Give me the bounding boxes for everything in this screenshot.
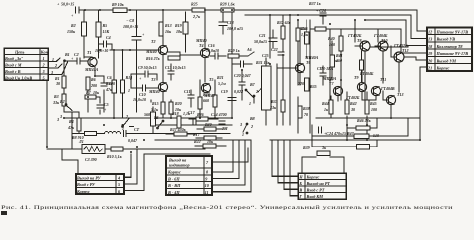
svg-text:С14 4700: С14 4700 — [211, 112, 227, 117]
svg-text:R4: R4 — [69, 119, 74, 124]
svg-text:18к: 18к — [176, 29, 183, 34]
wire: R14 leads — [122, 50, 124, 118]
svg-text:100: 100 — [371, 107, 377, 112]
resistor R14 — [120, 80, 124, 93]
capacitor C17 — [193, 118, 196, 124]
wire: C4 branch — [111, 44, 113, 50]
svg-text:100,0 я15: 100,0 я15 — [227, 26, 243, 31]
wire: R43 to right — [369, 118, 408, 136]
resistor R5 — [96, 22, 101, 37]
wire: X3 row7 feed — [212, 148, 248, 162]
resistor R1 — [62, 76, 66, 88]
svg-text:510: 510 — [373, 133, 379, 138]
wire: vertical x163 T2 collector — [162, 10, 164, 45]
svg-text:Т1: Т1 — [87, 50, 91, 55]
svg-text:С9 50,0х15: С9 50,0х15 — [138, 65, 157, 70]
svg-text:R27 430к: R27 430к — [170, 127, 187, 132]
resistor R15 — [161, 102, 165, 114]
svg-text:Н: Н — [298, 174, 303, 179]
svg-text:2,7к: 2,7к — [192, 14, 201, 19]
wire: R2 bottom to T1 collector — [83, 36, 85, 58]
svg-text:Вход „Зв": Вход „Зв" — [4, 56, 24, 61]
resistor R4 — [77, 118, 81, 134]
transistor T11 — [371, 86, 380, 95]
svg-text:+ С26: + С26 — [316, 8, 326, 13]
svg-text:10,0×10: 10,0×10 — [95, 48, 108, 53]
wire: R44 leads — [330, 96, 332, 118]
svg-text:В1: В1 — [64, 52, 70, 57]
svg-text:R30: R30 — [205, 122, 212, 127]
svg-text:47к: 47к — [67, 125, 75, 130]
wire: output УМ run to connector row 20 — [404, 57, 427, 60]
svg-text:В2: В2 — [59, 99, 65, 104]
svg-text:R3: R3 — [54, 94, 59, 99]
wire: feedback bus y118 — [64, 117, 232, 119]
resistor R16 — [168, 56, 180, 60]
resistor R141 560 — [151, 107, 156, 134]
wire: T9 T11 join — [362, 92, 376, 100]
svg-text:33к: 33к — [52, 100, 60, 105]
wire: R1/R3 chain — [63, 88, 65, 108]
wire: R34 leads — [306, 20, 308, 58]
svg-text:3: 3 — [50, 70, 53, 75]
wire: R19 top — [185, 12, 187, 22]
svg-text:R39: R39 — [303, 145, 310, 150]
wire: right cluster x330 — [329, 29, 331, 100]
svg-text:Корпус: Корпус — [76, 189, 90, 194]
svg-text:R19: R19 — [175, 23, 182, 28]
wire: X4 fan row Б — [278, 140, 298, 183]
svg-text:Кон: Кон — [40, 49, 49, 54]
svg-text:С3 390: С3 390 — [85, 157, 97, 162]
svg-text:R2: R2 — [71, 23, 76, 28]
svg-text:МП40: МП40 — [145, 49, 157, 54]
resistor R41 trimmer — [330, 41, 338, 80]
svg-text:Корпус: Корпус — [167, 170, 181, 175]
svg-text:Т2: Т2 — [151, 39, 155, 44]
resistor R25 — [192, 8, 205, 12]
svg-text:R17: R17 — [193, 132, 201, 137]
resistor R44 — [329, 100, 333, 114]
svg-text:Вход с В: Вход с В — [4, 69, 21, 74]
svg-text:11: 11 — [205, 190, 209, 195]
resistor R40 — [339, 36, 343, 51]
wire: X3 fan row 11 — [212, 140, 251, 192]
wire: x378 vertical — [377, 30, 379, 42]
svg-text:R18: R18 — [172, 111, 179, 116]
switch B1 — [57, 58, 66, 62]
resistor R20 — [169, 102, 173, 114]
svg-text:С18: С18 — [227, 20, 234, 25]
svg-text:С4: С4 — [106, 35, 111, 40]
wire: bus y140 right — [270, 139, 420, 141]
svg-text:Т12: Т12 — [402, 48, 408, 53]
svg-text:Т9: Т9 — [354, 75, 358, 80]
svg-text:33к: 33к — [269, 105, 277, 110]
switch B5 — [157, 120, 164, 129]
svg-text:R29 1к: R29 1к — [228, 48, 241, 53]
svg-text:Питание 9V-17В: Питание 9V-17В — [436, 51, 469, 56]
switch B8 — [243, 123, 248, 134]
svg-text:7М: 7М — [222, 126, 228, 131]
resistor R30 — [197, 127, 224, 131]
resistor R9 — [113, 8, 127, 12]
svg-text:МП41А: МП41А — [84, 67, 99, 72]
switch B3 — [122, 119, 134, 128]
wire: vertical x205 T4 — [204, 10, 206, 48]
capacitor C13 — [168, 64, 174, 80]
capacitor C23el — [319, 127, 322, 133]
wire: X3 fan row 10 — [212, 140, 245, 185]
svg-text:220: 220 — [297, 81, 304, 86]
svg-text:ГТ404В: ГТ404В — [380, 86, 395, 91]
svg-text:− С8: − С8 — [126, 18, 134, 23]
svg-text:Л1: Л1 — [78, 139, 84, 144]
svg-text:R25: R25 — [191, 2, 198, 7]
wire: R39 loop over X4 — [302, 157, 316, 173]
svg-text:А6: А6 — [246, 47, 252, 52]
wire: X4 fan row В — [284, 140, 298, 189]
svg-text:30: 30 — [350, 107, 355, 112]
connector X5 table (right edge) — [427, 28, 472, 72]
wire: R6 bottom — [87, 90, 89, 112]
svg-text:Вход с М: Вход с М — [4, 62, 22, 67]
svg-text:МП40А: МП40А — [304, 55, 319, 60]
wire: input row3 diagonal — [48, 61, 68, 75]
transistor T10 — [375, 41, 388, 51]
wire: R45 bottom — [366, 116, 368, 140]
transistor T4 — [200, 48, 209, 57]
svg-text:МП40: МП40 — [148, 89, 160, 94]
wire: C2 to T1 base — [81, 60, 88, 62]
wire: R45 top — [366, 92, 368, 100]
svg-text:Вход с РТ: Вход с РТ — [306, 187, 325, 192]
svg-text:Т6: Т6 — [306, 60, 310, 65]
svg-text:560: 560 — [144, 112, 150, 117]
capacitor C2 — [77, 58, 80, 64]
wire: T4 base feed from T2 — [168, 52, 200, 55]
wire: drop to X2 row5 — [124, 149, 137, 184]
svg-text:1: 1 — [43, 56, 45, 61]
svg-text:R20: R20 — [175, 101, 182, 106]
switch B7 — [245, 89, 255, 103]
svg-text:С21: С21 — [259, 33, 266, 38]
svg-text:5: 5 — [118, 182, 120, 187]
svg-text:13: 13 — [428, 37, 432, 42]
svg-text:Вход Uн 1,0мВ: Вход Uн 1,0мВ — [4, 75, 32, 80]
wire: R11 leads — [113, 50, 115, 118]
svg-text:С13 10,0х15: С13 10,0х15 — [165, 65, 186, 70]
wire: x341 vertical — [340, 30, 342, 36]
svg-text:R38: R38 — [303, 106, 310, 111]
resistor R27 430k — [166, 132, 196, 136]
resistor R11 — [112, 80, 116, 93]
wire: T5 bias — [151, 80, 215, 118]
connector X3 table (bottom middle) — [166, 156, 212, 195]
svg-text:R23: R23 — [203, 92, 210, 97]
capacitor C25 — [232, 61, 252, 67]
wire: left rail drop — [72, 112, 78, 149]
wire: bus y154 — [144, 153, 210, 155]
svg-text:Выход на РУ: Выход на РУ — [76, 176, 102, 181]
svg-text:660: 660 — [203, 98, 209, 103]
wire: C6 bottom — [103, 90, 105, 112]
wire: x341 lower — [340, 52, 342, 100]
wire: T10 emitter down — [382, 51, 384, 83]
wire: R5 bottom down through C4 node — [98, 37, 100, 58]
svg-text:R37 1к: R37 1к — [309, 1, 322, 6]
capacitor C5 — [97, 105, 103, 108]
wire: x277 vertical — [276, 64, 278, 125]
capacitor C18 — [219, 12, 227, 34]
svg-text:10,0я10: 10,0я10 — [206, 48, 219, 53]
resistor R2 — [82, 22, 87, 36]
svg-text:R35: R35 — [310, 84, 317, 89]
capacitor C4 — [99, 41, 113, 47]
switch B2 — [65, 104, 72, 111]
svg-text:Т3: Т3 — [151, 77, 155, 82]
svg-text:Т10: Т10 — [381, 38, 387, 43]
svg-text:С6: С6 — [107, 75, 112, 80]
resistor R10 — [111, 147, 123, 151]
wire: R1 top — [63, 61, 65, 76]
svg-text:10к: 10к — [207, 139, 214, 144]
wire: supply run to connector row 19 — [330, 29, 427, 53]
svg-text:47к: 47к — [105, 87, 113, 92]
svg-text:СТ: СТ — [134, 127, 140, 132]
wire: x270 vertical — [269, 15, 271, 58]
svg-text:С20 0,047: С20 0,047 — [234, 73, 252, 78]
svg-text:1: 1 — [128, 88, 130, 93]
wire: drop to X2 row4 — [124, 154, 131, 177]
svg-text:Выход УМ: Выход УМ — [436, 58, 457, 63]
resistor R43 — [354, 134, 369, 138]
svg-text:Б: Б — [298, 181, 302, 186]
wire: B1 switch to C2 — [64, 60, 76, 62]
svg-text:В - 6П: В - 6П — [167, 176, 180, 181]
capacitor C19 — [228, 98, 236, 101]
svg-text:21: 21 — [427, 66, 432, 71]
svg-text:1: 1 — [122, 126, 124, 131]
resistor R8 — [78, 131, 105, 135]
wire: T1 emitter down to R1/R6 node — [94, 66, 96, 76]
svg-text:Т8: Т8 — [357, 38, 361, 43]
capacitor C21 — [269, 30, 277, 48]
resistor R32 — [281, 26, 285, 39]
svg-text:1,1к: 1,1к — [183, 111, 191, 116]
svg-text:200: 200 — [90, 83, 97, 88]
resistor R3 — [62, 94, 66, 106]
page corner mark — [1, 211, 7, 215]
filter C3 box — [82, 145, 111, 154]
svg-text:50,0я15: 50,0я15 — [254, 39, 267, 44]
connector X2 table (bottom left) — [76, 174, 124, 194]
transistor T1 — [88, 57, 97, 66]
transistor T9 — [357, 60, 366, 92]
svg-text:15К: 15К — [103, 29, 110, 34]
wire: collector T8 run to connector row 18 — [365, 20, 427, 46]
wire: rail y149 right — [123, 148, 205, 150]
wire: bus y133 — [136, 133, 230, 135]
wire: R7 node — [88, 96, 100, 98]
wire: R19 bottom — [185, 34, 187, 52]
wire: X4 fan row Н — [272, 140, 298, 176]
svg-text:Выход на РТ: Выход на РТ — [306, 181, 331, 186]
svg-text:150: 150 — [336, 58, 342, 63]
wire: input row2 stub — [48, 64, 62, 68]
transistor T12 — [391, 46, 404, 62]
svg-text:R5: R5 — [103, 23, 108, 28]
svg-text:Цепь: Цепь — [14, 49, 24, 54]
svg-text:R22: R22 — [194, 139, 201, 144]
svg-text:3: 3 — [42, 69, 45, 74]
capacitor C1 — [76, 7, 80, 13]
svg-text:R46 22к: R46 22к — [357, 118, 372, 123]
svg-text:Питание 9V-17В: Питание 9V-17В — [436, 29, 469, 34]
capacitor C23 — [320, 66, 326, 85]
wire: bus drop into connector row 12 — [417, 10, 427, 31]
connector X4 table (bottom, right of X3) — [298, 173, 346, 199]
svg-text:5: 5 — [43, 75, 45, 80]
svg-text:1: 1 — [249, 101, 251, 106]
potentiometer R31 — [258, 58, 271, 125]
svg-text:2: 2 — [125, 114, 128, 119]
wire: T12 down — [398, 62, 400, 92]
svg-text:3: 3 — [129, 76, 132, 81]
wire: R42 bottom — [346, 116, 348, 140]
resistor R37 — [310, 27, 330, 31]
resistor R39 — [317, 151, 330, 155]
wire: T1 collector jog — [84, 56, 92, 58]
svg-text:ГТ404Б: ГТ404Б — [359, 71, 374, 76]
resistor R22 — [195, 144, 226, 148]
svg-text:16к: 16к — [165, 29, 172, 34]
resistor R47 — [359, 51, 363, 82]
svg-text:Рис. 41. Принципиальная схема: Рис. 41. Принципиальная схема магнитофон… — [1, 204, 453, 211]
svg-text:63к: 63к — [300, 26, 307, 31]
capacitor C11 — [188, 90, 194, 107]
resistor R26 — [189, 117, 218, 121]
resistor R38 — [298, 106, 302, 118]
wire: R4 divider — [64, 108, 79, 112]
svg-text:12: 12 — [428, 29, 432, 34]
wire: X3 fan row 8 — [212, 140, 233, 172]
resistor R28 — [221, 8, 234, 12]
inductor L1 — [105, 132, 121, 134]
svg-text:50,0×15: 50,0×15 — [61, 2, 74, 7]
svg-text:С2: С2 — [74, 52, 79, 57]
resistor R29 — [228, 52, 254, 58]
wire: bus y132 right (into R43) — [312, 135, 354, 137]
wire: input row1 stub — [48, 58, 60, 62]
svg-text:R11: R11 — [106, 81, 112, 86]
svg-text:5,1к: 5,1к — [151, 107, 159, 112]
resistor R6 — [86, 77, 90, 90]
wire: input row5 down the left side — [46, 80, 48, 147]
svg-text:В - ВП: В - ВП — [167, 183, 181, 188]
resistor R45 — [365, 100, 369, 114]
svg-text:20: 20 — [427, 58, 433, 63]
wire: vertical from R5 top to bus — [98, 10, 100, 22]
svg-text:Коллектор Т8: Коллектор Т8 — [436, 44, 464, 49]
svg-text:5,1м: 5,1м — [218, 81, 226, 86]
wire: ground run to connector row 21 — [420, 67, 427, 140]
resistor R18 — [177, 116, 181, 128]
svg-text:10,0х10: 10,0х10 — [133, 97, 146, 102]
svg-text:R44: R44 — [322, 101, 329, 106]
transistor T7 — [333, 86, 342, 95]
svg-text:Выход УВ: Выход УВ — [436, 37, 456, 42]
capacitor C8 — [132, 10, 141, 40]
transistor T6 — [277, 41, 305, 85]
capacitor C26 — [320, 13, 326, 24]
svg-text:2: 2 — [42, 62, 45, 67]
capacitor C20 — [239, 70, 245, 100]
resistor R48 — [312, 125, 377, 149]
svg-text:Корпус: Корпус — [436, 66, 450, 71]
svg-text:3: 3 — [56, 117, 59, 122]
capacitor C14 — [219, 121, 225, 124]
wire: B2 wiper feed — [78, 112, 80, 118]
svg-text:2: 2 — [250, 124, 253, 129]
svg-text:+С24 470х15 R47: +С24 470х15 R47 — [324, 131, 355, 136]
resistor R12 — [159, 22, 163, 36]
capacitor C10 — [131, 85, 158, 91]
svg-text:Т13: Т13 — [397, 92, 403, 97]
svg-text:30: 30 — [55, 81, 60, 86]
svg-text:0,047: 0,047 — [128, 138, 138, 143]
wire: x310 vertical — [309, 20, 311, 133]
wire: R32 chain leads — [283, 15, 298, 133]
svg-text:Т11: Т11 — [380, 77, 386, 82]
resistor R7 — [85, 95, 96, 99]
capacitor C6 — [101, 76, 107, 86]
svg-text:R32 63к: R32 63к — [277, 20, 292, 25]
resistor R35 — [305, 78, 309, 91]
wire: X3 fan row 9 — [212, 140, 239, 178]
wire: T2 emitter down — [162, 55, 164, 82]
wire: second top bus to connector row 13 — [245, 15, 427, 39]
wire: ground rail y149 left — [47, 148, 82, 150]
capacitor C22 — [278, 52, 284, 55]
svg-text:2: 2 — [54, 63, 57, 68]
wire: vertical x136 — [136, 40, 138, 112]
svg-text:СП3-1ВА: СП3-1ВА — [317, 66, 334, 71]
svg-text:Г: Г — [298, 194, 302, 199]
resistor R33 — [281, 100, 285, 112]
svg-text:1: 1 — [242, 132, 244, 137]
svg-text:С22: С22 — [271, 47, 278, 52]
wire: vertical from R2 top to bus — [83, 10, 85, 22]
svg-text:4: 4 — [117, 176, 120, 181]
svg-text:R31 15к: R31 15к — [256, 60, 271, 65]
resistor R17 — [196, 136, 222, 140]
svg-text:R15: R15 — [152, 101, 159, 106]
resistor R23 — [198, 97, 202, 109]
svg-text:R28 1,6к: R28 1,6к — [220, 2, 236, 7]
svg-text:В7: В7 — [249, 82, 256, 87]
wire: x355 vertical — [354, 20, 356, 42]
wire: top supply bus — [79, 9, 417, 11]
svg-text:Вход КМ: Вход КМ — [306, 194, 324, 199]
svg-text:С19: С19 — [221, 89, 228, 94]
wire: T7 emitter — [337, 96, 339, 101]
svg-text:150к: 150к — [67, 29, 76, 34]
svg-text:2: 2 — [255, 89, 258, 94]
resistor R36 — [296, 28, 300, 41]
capacitor C16 — [210, 53, 226, 59]
resistor R34 — [305, 32, 309, 44]
